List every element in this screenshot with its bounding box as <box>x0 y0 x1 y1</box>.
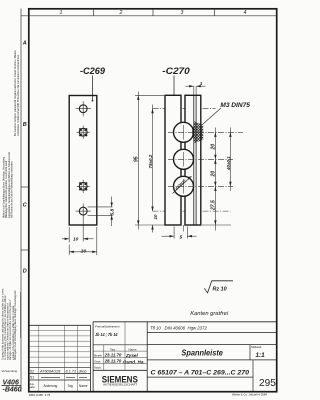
svg-text:10: 10 <box>153 214 158 219</box>
margin bracket <box>20 292 22 338</box>
zone tick left 2 <box>21 249 29 251</box>
svg-text:Änderung: Änderung <box>44 384 58 388</box>
frame heavy rectangle <box>29 9 277 392</box>
left bar <box>165 95 181 225</box>
outer thin border line <box>20 9 22 392</box>
circle 3 <box>174 176 194 196</box>
dim 10 (hole4 to bottom) <box>151 225 153 230</box>
svg-text:-C270: -C270 <box>162 66 190 77</box>
svg-text:3: 3 <box>181 10 184 16</box>
dim 1 at top <box>186 86 206 94</box>
svg-text:-B460: -B460 <box>3 386 22 393</box>
svg-text:20: 20 <box>80 249 87 255</box>
ext line bottom right <box>202 224 231 226</box>
centerline hole4 level <box>153 210 231 212</box>
dia 5.8 arrows <box>111 203 113 207</box>
svg-text:-C269: -C269 <box>80 66 106 77</box>
svg-text:Bearb.: Bearb. <box>94 353 103 357</box>
svg-text:gabe: gabe <box>30 386 36 389</box>
leader C270 <box>173 76 175 101</box>
svg-text:AT606AU28: AT606AU28 <box>39 369 61 373</box>
svg-text:B: B <box>23 122 27 128</box>
svg-text:295: 295 <box>259 378 276 389</box>
ext line top y=95 <box>135 94 164 96</box>
svg-text:Gund. Ha.: Gund. Ha. <box>123 359 145 364</box>
right section rows <box>147 333 277 392</box>
revision row 52 <box>30 369 87 373</box>
svg-text:Maßstab: Maßstab <box>251 345 262 349</box>
zone tick top 3 <box>213 9 215 16</box>
svg-text:or communication of the conten: or communication of the contents thereof… <box>4 295 7 360</box>
top zone strip line <box>21 15 277 17</box>
svg-text:Jkob: Jkob <box>78 369 87 373</box>
svg-text:5,8: 5,8 <box>110 208 116 215</box>
svg-text:Kanten gratfrei: Kanten gratfrei <box>190 311 229 317</box>
centerline hole1 level <box>153 108 216 110</box>
svg-text:Mitteilung ihres Inhalts nicht: Mitteilung ihres Inhalts nicht gestattet… <box>5 160 8 218</box>
svg-text:Gepr.: Gepr. <box>94 359 101 363</box>
hole 1 <box>76 101 91 116</box>
svg-text:Weitere vom Verpflichtungen di: Weitere vom Verpflichtungen dieser Unter… <box>3 156 6 218</box>
svg-text:Name: Name <box>129 347 137 351</box>
svg-text:Tag: Tag <box>110 347 115 351</box>
dim 75 <box>152 105 154 212</box>
svg-text:Copying of this document, and: Copying of this document, and giving it … <box>1 288 4 360</box>
dim 95 <box>137 92 139 230</box>
svg-text:damages. All rights are reserv: damages. All rights are reserved in the … <box>9 299 12 360</box>
left revision table outline <box>29 324 91 326</box>
svg-text:AKTIENGESELLSCHAFT: AKTIENGESELLSCHAFT <box>103 384 138 387</box>
hole 2 (threaded, X-marked) <box>77 126 90 139</box>
svg-text:express authority. Offenders a: express authority. Offenders are liable … <box>7 303 10 360</box>
svg-text:10: 10 <box>73 237 79 243</box>
svg-text:1: 1 <box>60 10 63 16</box>
zone tick left 1 <box>21 186 29 188</box>
mid+right top <box>93 321 277 323</box>
revision grid columns <box>39 325 78 391</box>
svg-text:1: 1 <box>200 81 203 87</box>
svg-text:D: D <box>23 269 27 275</box>
leader M3 <box>200 108 221 127</box>
plate outline C269 <box>69 96 97 226</box>
svg-text:27,5: 27,5 <box>211 200 217 211</box>
revision row 51 <box>30 376 34 380</box>
svg-text:Zysel: Zysel <box>125 353 138 358</box>
svg-text:Tag: Tag <box>68 384 73 388</box>
hole4 centerline below plate <box>82 219 84 242</box>
right bar <box>185 95 201 225</box>
leader C269 <box>92 76 94 101</box>
svg-text:51: 51 <box>30 376 34 380</box>
svg-text:2: 2 <box>119 10 123 16</box>
dim 20 bottom of plate <box>69 227 97 255</box>
ext line bottom y=225 <box>135 224 167 226</box>
svg-text:8.1.71: 8.1.71 <box>66 369 77 373</box>
svg-text:28.11.70: 28.11.70 <box>104 359 122 364</box>
circle2 centerline <box>168 158 233 160</box>
hole 4 <box>76 204 91 219</box>
Tag/Name table <box>93 345 147 371</box>
circle 1 <box>174 122 194 142</box>
M3 thread hatch <box>192 121 203 143</box>
svg-text:20: 20 <box>211 171 217 178</box>
svg-text:Tfl 10: Tfl 10 <box>150 326 161 331</box>
circle 2 <box>174 149 194 169</box>
zone tick top 1 <box>93 9 95 16</box>
svg-text:Name: Name <box>79 384 88 388</box>
svg-text:5: 5 <box>180 235 183 241</box>
zone tick top 2 <box>152 9 154 16</box>
underline V406 <box>2 384 22 386</box>
svg-text:4: 4 <box>244 10 247 16</box>
svg-text:20: 20 <box>211 144 217 151</box>
svg-text:40±0,1: 40±0,1 <box>226 156 231 171</box>
dia 5.8 dim lines <box>88 197 113 227</box>
svg-text:A: A <box>22 41 27 47</box>
svg-text:75±0,2: 75±0,2 <box>148 154 153 168</box>
svg-text:Werke & Co., Modell 4 0584: Werke & Co., Modell 4 0584 <box>232 392 267 396</box>
circle1 centerline <box>168 131 243 133</box>
margin legal text block 1 <box>14 50 20 136</box>
circle3 centerline <box>168 185 233 187</box>
svg-text:Hgw 2372: Hgw 2372 <box>188 326 208 331</box>
center dash below bars <box>183 225 185 232</box>
circle center vertical ticks <box>183 125 185 140</box>
svg-text:zugestanden. Zuwiderhandlungen: zugestanden. Zuwiderhandlungen verpflich… <box>8 151 11 218</box>
svg-text:M3 DIN75: M3 DIN75 <box>220 103 250 109</box>
svg-text:Jb 14 ; 7b 14: Jb 14 ; 7b 14 <box>95 332 118 338</box>
dim 40+-0,1 <box>229 128 231 192</box>
revision grid rows <box>29 331 91 363</box>
svg-text:Alle Rechte für den Fall der P: Alle Rechte für den Fall der Patentertei… <box>10 160 13 218</box>
hole 3 (threaded, X-marked) <box>77 180 90 193</box>
svg-text:1:1: 1:1 <box>256 352 266 359</box>
svg-text:Rz 10: Rz 10 <box>213 287 227 293</box>
right dims: 20 / 20 / 27,5 <box>214 128 216 231</box>
svg-text:Bei mancher sachgem. patentrec: Bei mancher sachgem. patentrechtl. Angab… <box>14 50 17 136</box>
svg-text:95: 95 <box>134 156 140 162</box>
svg-text:Verwendung: Verwendung <box>2 369 18 373</box>
margin legal text block 2 <box>3 151 14 218</box>
svg-text:DIN 40606: DIN 40606 <box>165 326 186 331</box>
svg-text:DBO-K486 3.75: DBO-K486 3.75 <box>29 393 51 397</box>
margin legal text block 3 <box>1 288 17 360</box>
slot lines in right bar <box>193 95 195 225</box>
bottom dim 5 <box>162 227 197 239</box>
svg-text:Weitergabe sowie Vervielfältig: Weitergabe sowie Vervielfältigung dieser… <box>14 290 17 360</box>
svg-text:23.11.70: 23.11.70 <box>104 353 122 358</box>
svg-text:Nach.: Nach. <box>94 365 102 369</box>
dia 10 H11 diagonal leader <box>173 176 192 193</box>
dim 10 bottom of plate <box>62 227 94 243</box>
svg-text:Freimaßtoleranzen: Freimaßtoleranzen <box>95 325 120 329</box>
surface mark Rz 10 <box>204 281 233 293</box>
svg-text:Spannleiste: Spannleiste <box>181 349 223 358</box>
Freimasstoleranzen cell <box>93 344 147 346</box>
svg-text:C 65107 – A 701–C 269...C 27: C 65107 – A 701–C 269...C 270 <box>151 369 250 376</box>
svg-text:vorbehalten. Schutzvermerk DIN: vorbehalten. Schutzvermerk DIN 34 beacht… <box>17 54 20 136</box>
